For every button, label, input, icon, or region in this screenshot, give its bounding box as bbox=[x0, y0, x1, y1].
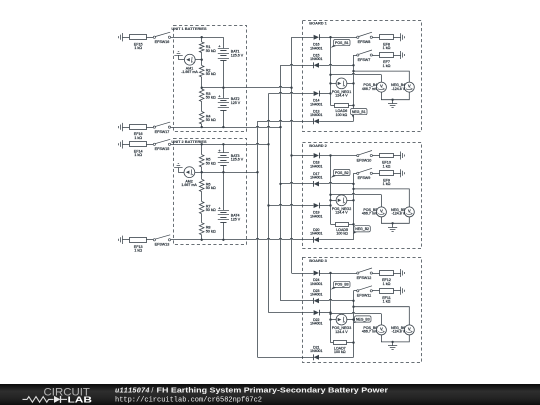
wire D14 row to pos rail bbox=[319, 93, 330, 95]
diode D24 1N4001 bbox=[314, 271, 319, 276]
svg-text:POS_B2: POS_B2 bbox=[335, 171, 349, 175]
wire POS_NEG3 right lead bbox=[346, 319, 353, 321]
wire D21 feed row bbox=[258, 357, 314, 359]
wire EF8 to ground bbox=[393, 37, 401, 39]
svg-text:1N4001: 1N4001 bbox=[310, 165, 322, 169]
svg-text:1N4001: 1N4001 bbox=[310, 176, 322, 180]
wire LOAD7 to neg rail bbox=[347, 342, 354, 344]
wire BAT3 bottom to BAT4 bbox=[223, 165, 225, 210]
node D19 pos rail junction bbox=[329, 204, 331, 206]
wire R4 bottom bbox=[201, 124, 203, 127]
svg-text:EFSW10: EFSW10 bbox=[357, 158, 372, 162]
svg-text:100 kΩ: 100 kΩ bbox=[334, 350, 346, 354]
voltmeter POS_B6 466.7 mV bbox=[376, 325, 386, 335]
ground at EF14 bbox=[122, 140, 124, 148]
switch EFSW10 bbox=[357, 154, 359, 156]
svg-text:50 kΩ: 50 kΩ bbox=[206, 96, 216, 100]
wire pos rail corner to load bbox=[331, 105, 335, 107]
wire ground to EF14 bbox=[122, 144, 130, 146]
switch EFSW11 bbox=[357, 290, 359, 292]
wire D19 row to pos rail bbox=[319, 205, 330, 207]
wire pos rail bbox=[330, 37, 332, 105]
wire D24 row to switch bbox=[319, 273, 356, 275]
wire LOAD5 to neg rail bbox=[349, 224, 354, 226]
svg-text:V: V bbox=[408, 84, 411, 89]
ground meters bbox=[388, 345, 397, 347]
wire R1 top lead bbox=[201, 37, 203, 42]
svg-text:LAB: LAB bbox=[68, 395, 93, 405]
node pos rail top bbox=[329, 36, 331, 38]
svg-text:EFSW16: EFSW16 bbox=[155, 40, 170, 44]
switch EFSW16 bbox=[153, 36, 155, 38]
ground EF7 bbox=[400, 51, 402, 59]
node AM2 junction bbox=[201, 171, 203, 173]
resistor EF9 1 k bbox=[380, 171, 394, 176]
node D17 neg rail junction bbox=[352, 183, 354, 185]
node meters ground junction bbox=[391, 341, 393, 343]
switch EFSW7 bbox=[357, 54, 359, 56]
svg-text:1N4001: 1N4001 bbox=[310, 57, 322, 61]
wire AM1 to junction bbox=[195, 59, 202, 61]
node R8 bottom junction bbox=[201, 239, 203, 241]
wire bus VA vertical bbox=[257, 121, 259, 357]
net flag POS_B3 bbox=[331, 286, 337, 289]
resistor R4 50 k bbox=[199, 112, 204, 125]
node D17 feed junction bbox=[279, 183, 281, 185]
node unit1 mid at resistors bbox=[201, 87, 203, 89]
svg-text:V: V bbox=[380, 208, 383, 213]
svg-text:50 kΩ: 50 kΩ bbox=[206, 161, 216, 165]
diode D18 1N4001 bbox=[314, 153, 319, 158]
resistor EF15 1 k bbox=[130, 35, 147, 40]
svg-text:1 kΩ: 1 kΩ bbox=[383, 300, 391, 304]
node BAT2 bottom junction bbox=[222, 126, 224, 128]
wire BAT4 bottom lead bbox=[223, 222, 225, 240]
wire neg rail to EFSW9 bbox=[354, 173, 357, 175]
wire D24 feed row bbox=[292, 273, 314, 275]
svg-text:1 kΩ: 1 kΩ bbox=[383, 182, 391, 186]
dashed box BOARD 2 bbox=[303, 143, 422, 249]
resistor EF7 1 k bbox=[380, 53, 394, 58]
wire neg rail to NEG_B6 top bbox=[354, 307, 410, 325]
wire unit1 bottom row bbox=[171, 126, 281, 127]
wire meters bottoms to ground bbox=[381, 92, 409, 100]
wire bus VB vertical bbox=[268, 94, 270, 313]
wire D16 row to switch bbox=[319, 37, 356, 39]
svg-text:EFSW15: EFSW15 bbox=[155, 147, 170, 151]
wire neg rail bbox=[353, 55, 355, 121]
svg-text:124.4 V: 124.4 V bbox=[335, 94, 348, 98]
svg-text:1 kΩ: 1 kΩ bbox=[134, 153, 142, 157]
ammeter AM2 bbox=[184, 167, 195, 178]
wire D19 feed row bbox=[269, 204, 314, 205]
resistor EF14 1 k bbox=[130, 142, 147, 147]
switch EFSW17 bbox=[153, 126, 155, 128]
logo diode bbox=[54, 396, 61, 403]
svg-text:1 kΩ: 1 kΩ bbox=[383, 164, 391, 168]
svg-text:-124.8 V: -124.8 V bbox=[392, 87, 406, 91]
wire unit1 top row bbox=[171, 37, 224, 39]
wire ground stub bbox=[392, 223, 394, 227]
wire probe to AM1 bbox=[178, 55, 180, 60]
wire BAT1 to mid bbox=[223, 61, 225, 98]
wire D13 feed row bbox=[258, 120, 314, 121]
svg-text:1N4001: 1N4001 bbox=[310, 46, 322, 50]
svg-text:UNIT 1 BATTERIES: UNIT 1 BATTERIES bbox=[171, 26, 207, 31]
svg-text:1 kΩ: 1 kΩ bbox=[134, 136, 142, 140]
ground at EF16 bbox=[122, 123, 124, 131]
wire neg rail to EFSW11 bbox=[354, 290, 357, 292]
wire neg rail to EFSW7 bbox=[354, 55, 357, 57]
svg-text:1N4001: 1N4001 bbox=[310, 282, 322, 286]
svg-text:1.667 mA: 1.667 mA bbox=[181, 183, 197, 187]
wire ground to EF13 bbox=[122, 239, 130, 241]
svg-text:125 V: 125 V bbox=[231, 217, 241, 221]
svg-text:1N4001: 1N4001 bbox=[310, 293, 322, 297]
wire bus VE vertical bbox=[291, 37, 293, 273]
svg-text:POS_B3: POS_B3 bbox=[335, 283, 349, 287]
diode D20 1N4001 bbox=[314, 237, 319, 242]
svg-text:-1.667 mA: -1.667 mA bbox=[181, 70, 198, 74]
svg-text:466.7 mV: 466.7 mV bbox=[362, 87, 378, 91]
wire D13 row to neg rail bbox=[319, 121, 353, 123]
svg-text:50 kΩ: 50 kΩ bbox=[206, 229, 216, 233]
node R1 top junction bbox=[201, 36, 203, 38]
wire R1 to R2 bbox=[201, 53, 203, 66]
svg-text:1N4001: 1N4001 bbox=[310, 103, 322, 107]
svg-text:1 kΩ: 1 kΩ bbox=[383, 64, 391, 68]
ground EF12 bbox=[400, 269, 402, 277]
wire switch to EF10 bbox=[373, 155, 380, 157]
dashed box BOARD 1 bbox=[303, 21, 422, 132]
diode D13 1N4001 bbox=[314, 119, 319, 124]
node unit1 bottom to bus VC bbox=[279, 126, 281, 128]
ammeter AM1 bbox=[184, 54, 195, 65]
diode D19 1N4001 bbox=[314, 203, 319, 208]
wire EF12 to ground bbox=[393, 273, 401, 275]
wire EF11 to ground bbox=[393, 290, 401, 292]
svg-text:EFSW13: EFSW13 bbox=[155, 243, 170, 247]
svg-text:466.7 mV: 466.7 mV bbox=[362, 212, 378, 216]
ground at EF15 bbox=[122, 33, 124, 41]
ground meters bbox=[388, 227, 397, 229]
svg-text:BOARD 1: BOARD 1 bbox=[309, 21, 327, 26]
svg-text:50 kΩ: 50 kΩ bbox=[206, 72, 216, 76]
wire BAT1 top lead bbox=[223, 37, 225, 48]
wire D21 row to neg rail bbox=[319, 357, 353, 359]
svg-text:POS_B1: POS_B1 bbox=[335, 41, 349, 45]
wire neg rail bbox=[353, 173, 355, 240]
voltmeter NEG_B6 -124.8 V bbox=[404, 325, 414, 335]
net flag POS_B2 bbox=[331, 174, 337, 177]
node BAT1 bottom mid junction bbox=[222, 87, 224, 89]
resistor LOAD5 100 k bbox=[336, 223, 349, 227]
svg-text:NEG_B2: NEG_B2 bbox=[355, 227, 369, 231]
wire LOAD6 to neg rail bbox=[348, 105, 353, 107]
wire pos rail corner to load bbox=[331, 224, 336, 226]
svg-text:EFSW11: EFSW11 bbox=[357, 294, 371, 298]
svg-text:1 kΩ: 1 kΩ bbox=[134, 249, 142, 253]
wire R7 to R8 bbox=[201, 214, 203, 223]
svg-text:-124.8 V: -124.8 V bbox=[392, 330, 406, 334]
node R5 top junction bbox=[201, 143, 203, 145]
svg-text:V: V bbox=[380, 326, 383, 331]
svg-text:124.4 V: 124.4 V bbox=[335, 330, 348, 334]
net flag POS_B1 bbox=[331, 45, 337, 48]
resistor EF16 1 k bbox=[130, 125, 147, 130]
node R4 bottom junction bbox=[201, 126, 203, 128]
wire unit2 mid rail to bus VA bbox=[195, 172, 258, 174]
net flag NEG_B2 bbox=[353, 231, 357, 234]
resistor EF12 1 k bbox=[380, 271, 394, 276]
svg-text:50 kΩ: 50 kΩ bbox=[206, 118, 216, 122]
voltmeter NEG_B5 -124.8 V bbox=[404, 207, 414, 217]
wire switch to EF7 bbox=[373, 55, 380, 57]
svg-text:1N4001: 1N4001 bbox=[310, 349, 322, 353]
ground meters bbox=[388, 103, 397, 105]
wire R2 to R3 bbox=[201, 77, 203, 89]
wire D16 feed row bbox=[292, 37, 314, 39]
voltmeter POS_NEG3 bbox=[336, 314, 347, 325]
switch EFSW9 bbox=[357, 172, 359, 174]
wire D15 feed row bbox=[281, 64, 314, 65]
node pos rail top bbox=[329, 154, 331, 156]
wire pos rail bbox=[330, 273, 332, 343]
node pos rail top bbox=[329, 272, 331, 274]
wire ground stub bbox=[392, 100, 394, 104]
wire D15 row to neg rail bbox=[319, 64, 353, 65]
node unit2 mid to bus VA bbox=[256, 171, 258, 173]
resistor EF13 1 k bbox=[130, 238, 147, 243]
wire neg rail bbox=[353, 291, 355, 358]
node unit1 mid to bus VE bbox=[290, 87, 292, 89]
wire meters bottoms to ground bbox=[381, 217, 409, 224]
diode D15 1N4001 bbox=[314, 63, 319, 68]
ground EF9 bbox=[400, 169, 402, 177]
svg-text:u1115074: u1115074 bbox=[115, 387, 150, 395]
logo zigzag wire bbox=[23, 397, 54, 403]
resistor R3 50 k bbox=[199, 89, 204, 102]
resistor R7 50 k bbox=[199, 202, 204, 214]
wire BAT2 bottom lead bbox=[223, 110, 225, 127]
svg-text:50 kΩ: 50 kΩ bbox=[206, 49, 216, 53]
wire D17 row to neg rail bbox=[319, 182, 353, 183]
svg-text:1N4001: 1N4001 bbox=[310, 322, 322, 326]
svg-text:-124.8 V: -124.8 V bbox=[392, 212, 406, 216]
svg-text:1N4001: 1N4001 bbox=[310, 215, 322, 219]
switch EFSW13 bbox=[153, 239, 155, 241]
wire ground stub bbox=[392, 342, 394, 346]
svg-text:125.6 V: 125.6 V bbox=[231, 158, 244, 162]
wire EF15 to EFSW16 bbox=[146, 37, 154, 39]
resistor LOAD6 100 k bbox=[335, 104, 349, 108]
resistor EF8 1 k bbox=[380, 35, 394, 40]
wire D22 feed row bbox=[269, 312, 314, 314]
diode D16 1N4001 bbox=[314, 35, 319, 40]
svg-text:http://circuitlab.com/cr6582np: http://circuitlab.com/cr6582npf67c2 bbox=[115, 397, 262, 405]
svg-text:100 kΩ: 100 kΩ bbox=[336, 113, 348, 117]
svg-text:EFSW7: EFSW7 bbox=[358, 58, 371, 62]
wire EF14 to EFSW15 bbox=[146, 144, 154, 146]
wire POS_NEG3 left lead bbox=[331, 319, 337, 321]
voltmeter POS_NEG1 bbox=[336, 78, 347, 89]
wire EF7 to ground bbox=[393, 55, 401, 57]
svg-text:BOARD 2: BOARD 2 bbox=[309, 143, 327, 148]
wire pos rail to POS_B6 top bbox=[331, 312, 382, 313]
wire D14 feed row bbox=[269, 92, 314, 93]
svg-text:NEG_B3: NEG_B3 bbox=[356, 317, 370, 321]
resistor LOAD7 100 k bbox=[334, 341, 347, 345]
ground EF11 bbox=[400, 287, 402, 295]
node meters ground junction bbox=[391, 222, 393, 224]
switch EFSW12 bbox=[357, 272, 359, 274]
wire POS_NEG1 left lead bbox=[331, 83, 337, 85]
wire switch to EF12 bbox=[373, 273, 380, 275]
svg-text:V: V bbox=[408, 208, 411, 213]
wire D20 row to neg rail bbox=[319, 239, 353, 241]
svg-text:FH Earthing System Primary-Sec: FH Earthing System Primary-Secondary Bat… bbox=[157, 385, 389, 394]
svg-text:V: V bbox=[408, 326, 411, 331]
ground EF10 bbox=[400, 152, 402, 160]
wire R5 top lead bbox=[201, 144, 203, 154]
node D15 neg rail junction bbox=[352, 64, 354, 66]
voltmeter NEG_B4 -124.8 V bbox=[404, 82, 414, 92]
voltmeter POS_B4 466.7 mV bbox=[376, 82, 386, 92]
wire meters bottoms to ground bbox=[381, 335, 409, 342]
node unit2 top to bus VB bbox=[267, 143, 269, 145]
svg-text:124.4 V: 124.4 V bbox=[335, 211, 348, 215]
wire R3 to R4 bbox=[201, 102, 203, 112]
wire POS_NEG2 right lead bbox=[346, 200, 353, 202]
net flag NEG_B3 bbox=[354, 321, 358, 323]
svg-text:466.7 mV: 466.7 mV bbox=[362, 330, 378, 334]
wire neg rail to NEG_B5 top bbox=[354, 189, 410, 207]
switch EFSW15 bbox=[153, 143, 155, 145]
diode D21 1N4001 bbox=[314, 355, 319, 360]
resistor R1 50 k bbox=[199, 42, 204, 53]
wire R5 to R6 bbox=[201, 167, 203, 179]
svg-text:EFSW9: EFSW9 bbox=[358, 176, 371, 180]
wire EF16 to EFSW17 bbox=[146, 127, 154, 129]
svg-text:1N4001: 1N4001 bbox=[310, 232, 322, 236]
dashed box BOARD 3 bbox=[303, 258, 422, 363]
diode D14 1N4001 bbox=[314, 91, 319, 96]
wire pos rail corner to load bbox=[331, 342, 334, 344]
wire D23 row to neg rail bbox=[319, 299, 353, 300]
dashed box UNIT 1 BATTERIES bbox=[174, 26, 247, 132]
wire unit1 mid rail bbox=[202, 86, 292, 87]
wire EF10 to ground bbox=[393, 155, 401, 157]
svg-text:50 kΩ: 50 kΩ bbox=[206, 186, 216, 190]
wire probe to AM2 bbox=[178, 168, 180, 173]
wire ground to EF15 bbox=[122, 37, 130, 39]
wire D23 feed row bbox=[281, 300, 314, 302]
resistor R8 50 k bbox=[199, 223, 204, 235]
svg-text:1 kΩ: 1 kΩ bbox=[383, 46, 391, 50]
voltmeter POS_B5 466.7 mV bbox=[376, 207, 386, 217]
wire switch to EF11 bbox=[373, 290, 380, 292]
net flag NEG_B1 bbox=[351, 114, 354, 119]
wire switch to EF9 bbox=[373, 173, 380, 175]
svg-text:EFSW8: EFSW8 bbox=[358, 40, 371, 44]
node D19 feed junction bbox=[267, 204, 269, 206]
wire D17 feed row bbox=[281, 182, 314, 183]
svg-text:125 V: 125 V bbox=[231, 101, 241, 105]
resistor R5 50 k bbox=[199, 155, 204, 167]
wire D18 row to switch bbox=[319, 155, 356, 157]
svg-text:1 kΩ: 1 kΩ bbox=[383, 282, 391, 286]
resistor EF11 1 k bbox=[380, 289, 394, 294]
wire R6 to R7 bbox=[201, 192, 203, 202]
wire pos rail to POS_B5 top bbox=[331, 193, 382, 194]
wire neg rail to NEG_B4 top bbox=[354, 71, 410, 82]
svg-text:125.6 V: 125.6 V bbox=[231, 53, 244, 57]
svg-text:100 kΩ: 100 kΩ bbox=[336, 232, 348, 236]
diode D23 1N4001 bbox=[314, 298, 319, 303]
ground at EF13 bbox=[122, 236, 124, 244]
svg-text:EFSW17: EFSW17 bbox=[155, 130, 170, 134]
svg-text:50 kΩ: 50 kΩ bbox=[206, 208, 216, 212]
wire BAT3 top lead bbox=[223, 144, 225, 153]
node BAT3 top junction bbox=[222, 143, 224, 145]
wire POS_NEG1 right lead bbox=[346, 83, 353, 85]
wire EF9 to ground bbox=[393, 173, 401, 175]
node BAT4 bottom junction bbox=[222, 239, 224, 241]
switch EFSW8 bbox=[357, 36, 359, 38]
diode D22 1N4001 bbox=[314, 310, 319, 315]
wire pos rail to POS_B4 top bbox=[331, 73, 382, 74]
svg-text:V: V bbox=[380, 84, 383, 89]
wire ground to EF16 bbox=[122, 127, 130, 129]
resistor EF10 1 k bbox=[380, 154, 394, 158]
node meters ground junction bbox=[391, 99, 393, 101]
svg-text:BOARD 3: BOARD 3 bbox=[309, 258, 327, 263]
wire D22 row to pos rail bbox=[319, 312, 330, 314]
voltmeter POS_NEG2 bbox=[336, 195, 347, 206]
svg-text:1 kΩ: 1 kΩ bbox=[134, 46, 142, 50]
wire D18 feed row bbox=[292, 155, 314, 157]
svg-text:1N4001: 1N4001 bbox=[310, 113, 322, 117]
diode D17 1N4001 bbox=[314, 181, 319, 186]
probe flag AM2 bbox=[174, 167, 182, 169]
wire bus VC vertical bbox=[280, 65, 282, 300]
probe flag AM1 bbox=[174, 55, 182, 57]
svg-text:NEG_B1: NEG_B1 bbox=[352, 110, 366, 114]
node AM1 junction bbox=[201, 59, 203, 61]
wire unit2 top row bbox=[171, 143, 269, 144]
wire D20 feed row bbox=[171, 238, 314, 239]
node D14 pos rail junction bbox=[329, 92, 331, 94]
wire R8 bottom lead bbox=[201, 235, 203, 240]
node D22 pos rail junction bbox=[329, 311, 331, 313]
wire pos rail bbox=[330, 156, 332, 225]
node BAT3 bottom junction bbox=[222, 171, 224, 173]
resistor R2 50 k bbox=[199, 66, 204, 78]
wire switch to EF8 bbox=[373, 37, 380, 39]
wire EF13 to EFSW13 bbox=[146, 239, 154, 241]
node D23 neg rail junction bbox=[352, 300, 354, 302]
ground EF8 bbox=[400, 33, 402, 41]
resistor R6 50 k bbox=[199, 179, 204, 191]
dashed box UNIT 2 BATTERIES bbox=[174, 139, 247, 245]
wire POS_NEG2 left lead bbox=[331, 200, 337, 202]
svg-text:EFSW12: EFSW12 bbox=[357, 276, 372, 280]
node D18 feed junction bbox=[290, 154, 292, 156]
